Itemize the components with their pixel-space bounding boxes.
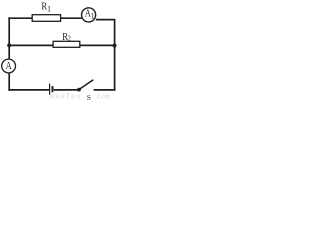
- ammeter A: [2, 59, 16, 73]
- switch S pivot node: [77, 88, 81, 92]
- label R2: [62, 32, 71, 43]
- resistor R1: [32, 15, 60, 22]
- wire: right vertical: [114, 19, 116, 91]
- wire: bottom left (corner to battery): [8, 89, 49, 91]
- svg-text:2: 2: [68, 33, 71, 43]
- watermark text: [50, 94, 111, 102]
- svg-text:1: 1: [47, 4, 51, 13]
- svg-text:1: 1: [91, 11, 95, 20]
- node: left junction: [7, 43, 11, 47]
- battery cell: short plate: [52, 86, 54, 92]
- wire: battery to switch pivot: [54, 89, 79, 91]
- svg-text:manfen: manfen: [50, 94, 82, 102]
- wire: R1 to A1: [61, 17, 82, 19]
- svg-text:com: com: [97, 94, 111, 102]
- resistor R2: [53, 41, 80, 47]
- switch S lever: [79, 80, 93, 90]
- wire: switch contact to bottom-right corner: [94, 89, 116, 91]
- wire: A1 to top-right corner: [96, 19, 115, 21]
- svg-text:A: A: [6, 61, 13, 72]
- wire: middle branch with R2: [8, 44, 114, 46]
- wire: left vertical upper (top corner to ammeter A): [8, 17, 10, 59]
- wire: left vertical lower (ammeter A to bottom corner): [8, 73, 10, 91]
- label R1: [41, 1, 51, 13]
- ammeter A1: [82, 8, 96, 22]
- label A1: [85, 9, 95, 21]
- wire: top-left horizontal (corner to R1): [8, 17, 32, 19]
- svg-text:S: S: [87, 93, 91, 102]
- battery cell: long plate: [49, 84, 51, 95]
- node: right junction: [112, 43, 116, 47]
